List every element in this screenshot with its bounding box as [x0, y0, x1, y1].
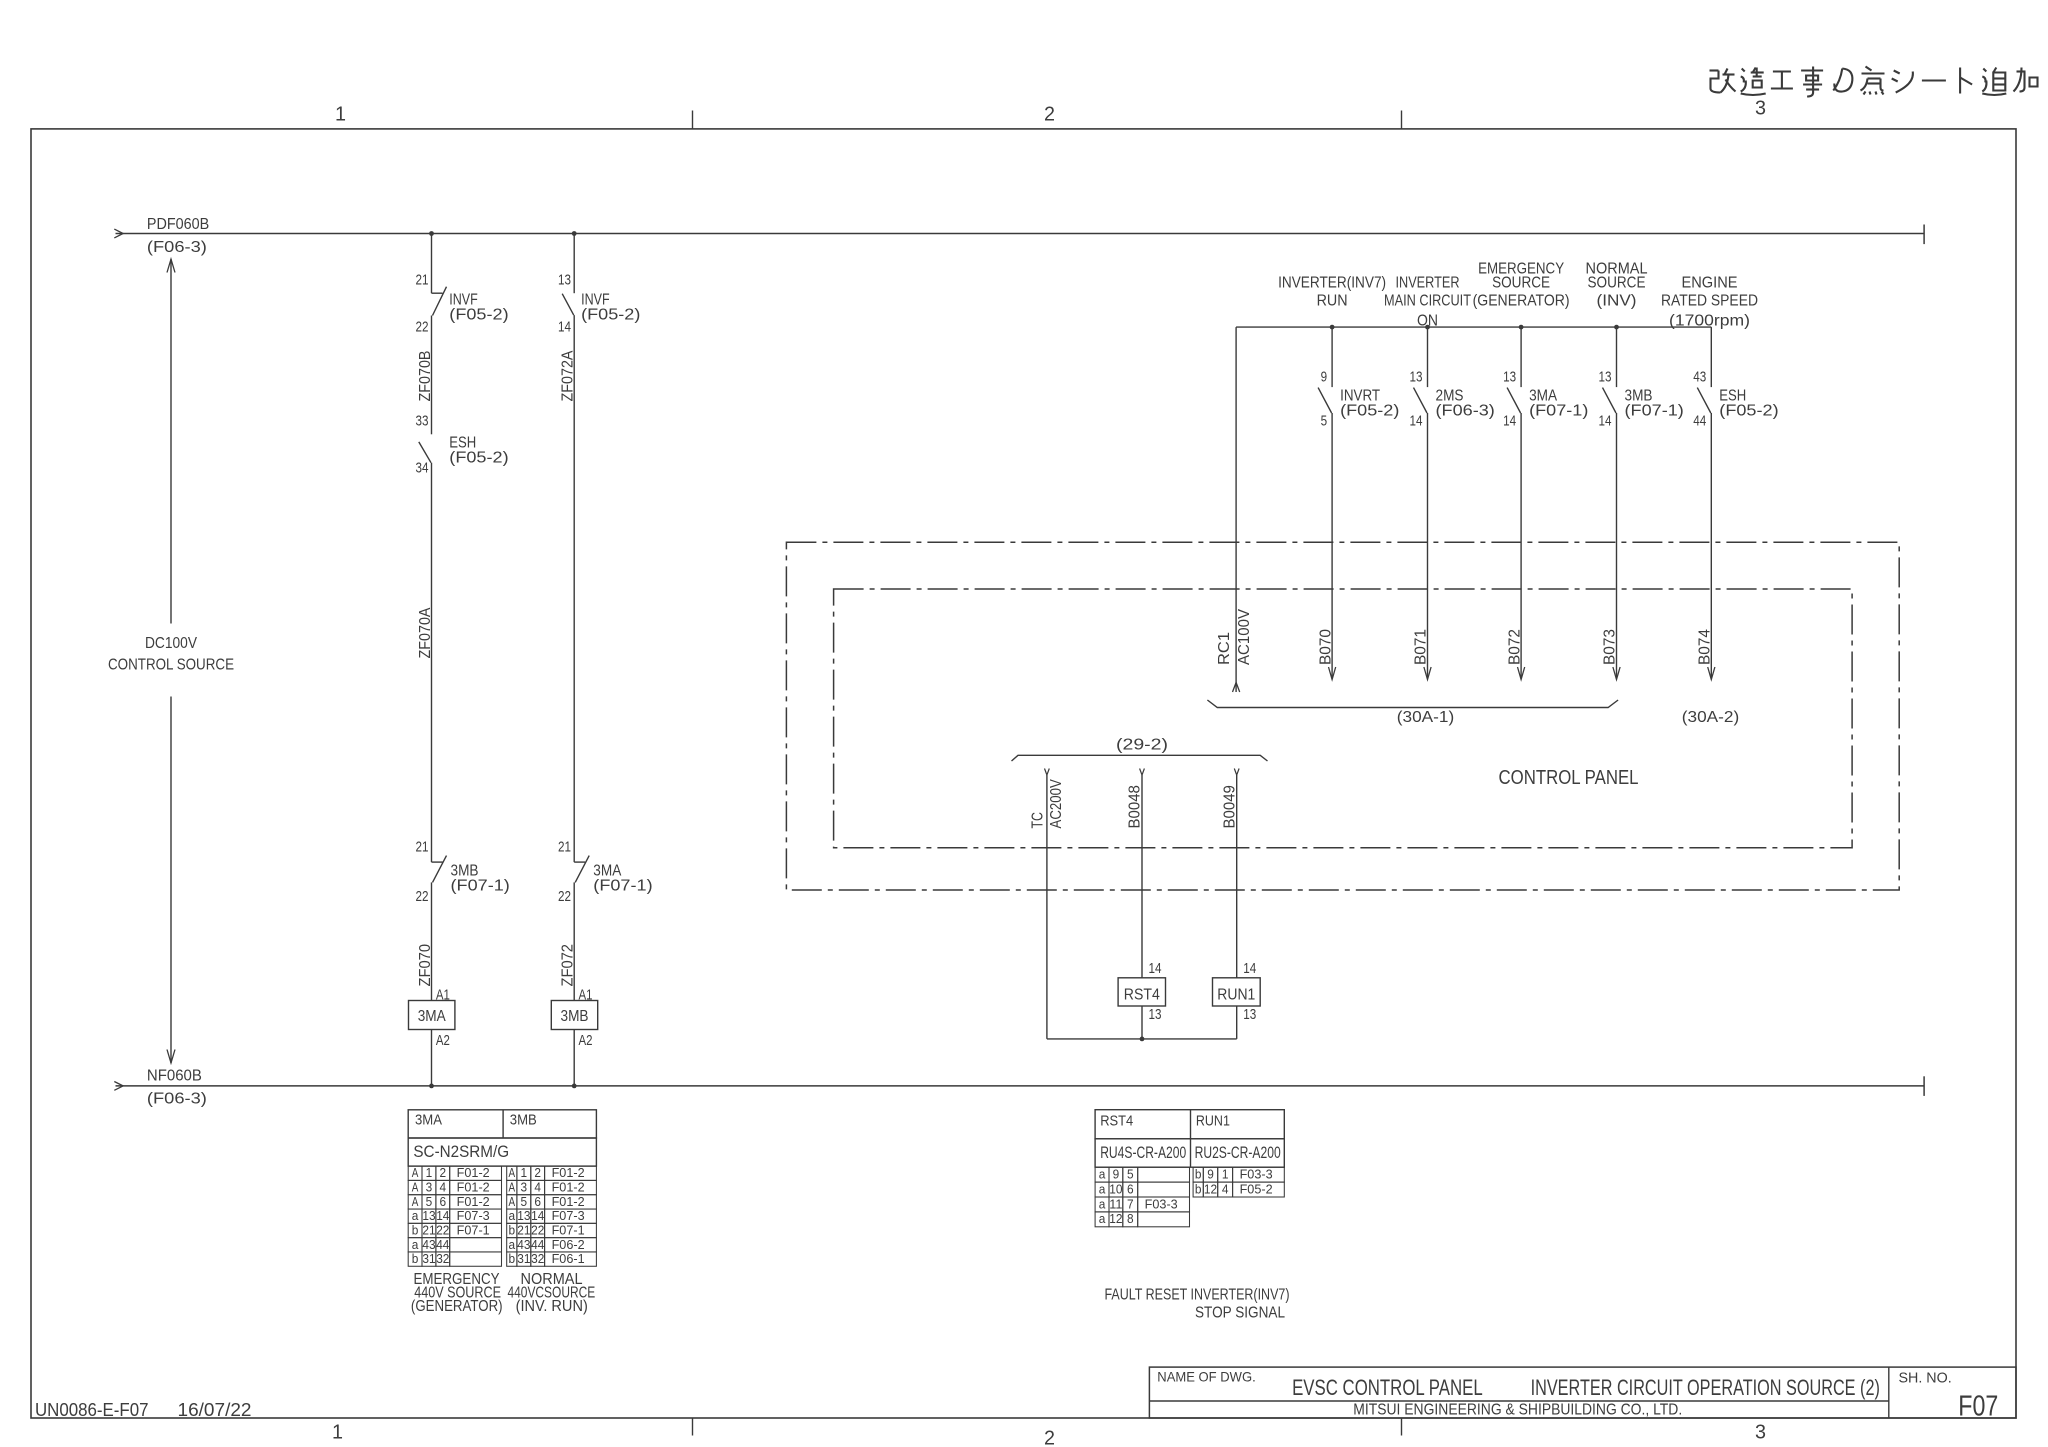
- svg-text:13: 13: [1410, 369, 1423, 386]
- svg-text:14: 14: [1599, 413, 1612, 430]
- svg-text:(F07-1): (F07-1): [451, 877, 510, 894]
- coil 3MB: [551, 1001, 597, 1030]
- svg-text:NF060B: NF060B: [147, 1068, 202, 1085]
- contact 3MB 21-22 (NC): [432, 861, 443, 863]
- wire B072 upper: [1520, 327, 1522, 387]
- wire: [573, 234, 575, 294]
- bus end tick: [1923, 1076, 1925, 1096]
- svg-text:UN0086-E-F07: UN0086-E-F07: [35, 1400, 149, 1420]
- svg-text:F07-3: F07-3: [552, 1209, 585, 1223]
- svg-text:(30A-1): (30A-1): [1397, 709, 1454, 726]
- svg-text:(F06-3): (F06-3): [147, 1091, 207, 1108]
- svg-text:RU2S-CR-A200: RU2S-CR-A200: [1195, 1143, 1281, 1162]
- svg-text:43: 43: [1693, 369, 1706, 386]
- wire B0048: [1141, 775, 1143, 978]
- svg-text:43: 43: [517, 1238, 530, 1252]
- svg-text:AC200V: AC200V: [1048, 779, 1065, 829]
- wire B070 upper: [1331, 327, 1333, 387]
- svg-text:3: 3: [521, 1181, 528, 1195]
- svg-text:14: 14: [1410, 413, 1423, 430]
- svg-text:(F05-2): (F05-2): [449, 449, 508, 466]
- svg-text:SC-N2SRM/G: SC-N2SRM/G: [413, 1142, 509, 1161]
- contact INVRT 9-5 (NO): [1318, 388, 1332, 413]
- svg-text:13: 13: [1243, 1006, 1256, 1023]
- svg-text:1: 1: [521, 1166, 528, 1180]
- junction branch2 top: [572, 231, 577, 236]
- note: kaizou kouji no tame sheet tsuika: [1710, 67, 2038, 97]
- contact INVF 13-14 (NO): [562, 294, 574, 315]
- svg-text:a: a: [1099, 1212, 1106, 1226]
- wire B073 upper: [1616, 327, 1618, 387]
- wire bottom connector: [1047, 1038, 1237, 1040]
- junction branch1 bottom: [429, 1084, 434, 1089]
- svg-text:CONTROL PANEL: CONTROL PANEL: [1499, 767, 1639, 789]
- svg-text:5: 5: [1321, 413, 1328, 430]
- junction branch2 bottom: [572, 1084, 577, 1089]
- svg-text:13: 13: [1503, 369, 1516, 386]
- node NF060B bus: [116, 1085, 1925, 1087]
- svg-text:ZF072: ZF072: [560, 944, 577, 987]
- svg-text:3MA: 3MA: [415, 1112, 442, 1129]
- svg-text:44: 44: [531, 1238, 544, 1252]
- svg-text:b: b: [509, 1252, 516, 1266]
- svg-text:F07-1: F07-1: [457, 1223, 490, 1237]
- svg-text:14: 14: [436, 1209, 449, 1223]
- svg-text:b: b: [509, 1223, 516, 1237]
- junction: [1330, 325, 1335, 330]
- arrow down: [1708, 667, 1715, 680]
- svg-text:a: a: [1099, 1197, 1106, 1211]
- wire TC: [1046, 775, 1048, 1039]
- svg-text:1: 1: [426, 1166, 433, 1180]
- svg-text:(INV): (INV): [1597, 293, 1637, 310]
- svg-text:A2: A2: [436, 1032, 450, 1049]
- contact ESH 33-34 (NO): [419, 442, 431, 463]
- svg-text:21: 21: [416, 839, 429, 856]
- svg-text:STOP SIGNAL: STOP SIGNAL: [1195, 1305, 1285, 1322]
- arrow up at bottom of RC1: [1233, 683, 1240, 693]
- svg-text:2: 2: [440, 1166, 447, 1180]
- svg-text:b: b: [412, 1252, 419, 1266]
- junction: [1614, 325, 1619, 330]
- svg-text:33: 33: [416, 413, 429, 430]
- node PDF060B bus: [116, 233, 1925, 235]
- svg-text:b: b: [1195, 1168, 1202, 1182]
- svg-text:F01-2: F01-2: [552, 1181, 585, 1195]
- svg-text:44: 44: [436, 1238, 449, 1252]
- svg-text:F06-2: F06-2: [552, 1238, 585, 1252]
- svg-text:MAIN CIRCUIT: MAIN CIRCUIT: [1384, 293, 1471, 310]
- wire right sub-bus: [1236, 326, 1711, 328]
- bus arrow left: [114, 1082, 123, 1091]
- wire B071 lower: [1427, 413, 1429, 679]
- svg-text:SOURCE: SOURCE: [1588, 275, 1646, 292]
- svg-text:13: 13: [558, 272, 571, 289]
- svg-text:13: 13: [1599, 369, 1612, 386]
- svg-text:F07-3: F07-3: [457, 1209, 490, 1223]
- svg-text:a: a: [1099, 1168, 1106, 1182]
- control panel outer boundary: [786, 542, 1899, 890]
- svg-text:F01-2: F01-2: [457, 1166, 490, 1180]
- arrow down: [1518, 667, 1525, 680]
- svg-text:a: a: [412, 1238, 419, 1252]
- wire ZF072A: [573, 315, 575, 862]
- svg-text:ZF072A: ZF072A: [560, 350, 577, 401]
- wire ZF070: [431, 882, 433, 1000]
- arrow down TC: [1045, 769, 1050, 776]
- arrow down B0048: [1140, 769, 1145, 776]
- contact 2MS 13-14 (NO): [1414, 388, 1428, 413]
- svg-text:32: 32: [531, 1252, 544, 1266]
- svg-text:22: 22: [436, 1223, 449, 1237]
- table 3MA/3MB: [408, 1110, 596, 1266]
- wire ZF072: [573, 882, 575, 1000]
- svg-text:21: 21: [416, 272, 429, 289]
- svg-text:B074: B074: [1697, 629, 1714, 665]
- svg-text:B072: B072: [1506, 629, 1523, 665]
- coil 3MA: [409, 1001, 455, 1030]
- svg-text:44: 44: [1693, 413, 1706, 430]
- svg-text:CONTROL SOURCE: CONTROL SOURCE: [108, 657, 234, 674]
- bus arrow left: [114, 229, 123, 238]
- svg-text:ZF070A: ZF070A: [417, 607, 434, 658]
- wire RC1: [1235, 327, 1237, 692]
- svg-text:RUN1: RUN1: [1217, 987, 1255, 1004]
- arrow down: [1424, 667, 1431, 680]
- svg-text:14: 14: [531, 1209, 544, 1223]
- junction: [1519, 325, 1524, 330]
- contact ESH 43-44 (NO): [1697, 388, 1711, 413]
- svg-text:3: 3: [426, 1181, 433, 1195]
- svg-text:ENGINE: ENGINE: [1682, 275, 1738, 292]
- svg-text:31: 31: [422, 1252, 435, 1266]
- wire B071 upper: [1427, 327, 1429, 387]
- svg-text:1: 1: [332, 1422, 343, 1444]
- svg-text:2: 2: [1044, 1428, 1055, 1447]
- arrow down B0049: [1234, 769, 1239, 776]
- wire B072 lower: [1520, 413, 1522, 679]
- wire: [1141, 1006, 1143, 1039]
- svg-text:1: 1: [1222, 1168, 1229, 1182]
- svg-text:5: 5: [1127, 1168, 1134, 1182]
- svg-text:TC: TC: [1030, 812, 1047, 829]
- svg-text:22: 22: [531, 1223, 544, 1237]
- svg-text:14: 14: [1149, 960, 1162, 977]
- svg-text:3MA: 3MA: [418, 1008, 446, 1025]
- svg-text:9: 9: [1207, 1168, 1214, 1182]
- svg-text:43: 43: [422, 1238, 435, 1252]
- svg-text:(F06-3): (F06-3): [1436, 402, 1495, 419]
- svg-text:14: 14: [1243, 960, 1256, 977]
- svg-text:13: 13: [422, 1209, 435, 1223]
- wire B074 upper: [1710, 327, 1712, 387]
- svg-text:EVSC CONTROL PANEL: EVSC CONTROL PANEL: [1292, 1375, 1483, 1400]
- svg-text:(INV. RUN): (INV. RUN): [516, 1298, 588, 1315]
- svg-text:12: 12: [1204, 1182, 1217, 1196]
- svg-text:F07: F07: [1958, 1391, 1998, 1423]
- svg-text:16/07/22: 16/07/22: [178, 1400, 252, 1420]
- svg-text:B070: B070: [1317, 629, 1334, 665]
- svg-text:RATED SPEED: RATED SPEED: [1661, 293, 1758, 310]
- relay RUN1: [1213, 978, 1261, 1006]
- svg-text:9: 9: [1321, 369, 1328, 386]
- svg-text:8: 8: [1127, 1212, 1134, 1226]
- svg-text:F01-2: F01-2: [552, 1195, 585, 1209]
- svg-text:14: 14: [1503, 413, 1516, 430]
- contact INVF 21-22 (NC): [432, 292, 443, 294]
- svg-text:22: 22: [416, 319, 429, 336]
- wire DC100V source span: [170, 259, 172, 623]
- svg-text:13: 13: [517, 1209, 530, 1223]
- junction: [1140, 1037, 1145, 1042]
- wire B070 lower: [1331, 413, 1333, 679]
- svg-text:b: b: [1195, 1182, 1202, 1196]
- svg-text:(F05-2): (F05-2): [449, 306, 508, 323]
- brace (29-2): [1012, 755, 1268, 761]
- svg-text:(30A-2): (30A-2): [1682, 709, 1739, 726]
- svg-text:A: A: [509, 1166, 516, 1180]
- svg-text:(F05-2): (F05-2): [1719, 402, 1778, 419]
- junction: [1425, 325, 1430, 330]
- svg-text:SH. NO.: SH. NO.: [1899, 1370, 1952, 1387]
- svg-text:F05-2: F05-2: [1240, 1182, 1273, 1196]
- svg-text:B0048: B0048: [1127, 785, 1144, 828]
- svg-text:F01-2: F01-2: [457, 1195, 490, 1209]
- svg-text:F01-2: F01-2: [457, 1181, 490, 1195]
- svg-text:A: A: [412, 1166, 419, 1180]
- svg-text:7: 7: [1127, 1197, 1134, 1211]
- svg-text:b: b: [412, 1223, 419, 1237]
- wire: [573, 1030, 575, 1086]
- svg-text:6: 6: [440, 1195, 447, 1209]
- svg-text:F01-2: F01-2: [552, 1166, 585, 1180]
- wire: [170, 697, 172, 1064]
- svg-text:PDF060B: PDF060B: [147, 216, 209, 233]
- contact 3MB 13-14 (NO): [1603, 388, 1617, 413]
- svg-text:(F07-1): (F07-1): [593, 877, 652, 894]
- svg-text:(F05-2): (F05-2): [581, 306, 640, 323]
- svg-text:B073: B073: [1602, 629, 1619, 665]
- wire: [1236, 1006, 1238, 1039]
- svg-text:2: 2: [534, 1166, 541, 1180]
- svg-text:22: 22: [416, 888, 429, 905]
- svg-text:3: 3: [1755, 1422, 1766, 1444]
- svg-text:3MB: 3MB: [561, 1008, 589, 1025]
- svg-text:10: 10: [1109, 1182, 1122, 1196]
- svg-text:RST4: RST4: [1100, 1113, 1133, 1130]
- wire B0049: [1236, 775, 1238, 978]
- svg-text:RUN: RUN: [1317, 293, 1348, 310]
- svg-text:(F05-2): (F05-2): [1340, 402, 1399, 419]
- wire: [431, 1030, 433, 1086]
- svg-text:5: 5: [521, 1195, 528, 1209]
- svg-text:A: A: [412, 1181, 419, 1195]
- contact 3MA 13-14 (NO): [1507, 388, 1521, 413]
- table RST4/RUN1: [1095, 1110, 1284, 1227]
- svg-text:INVERTER(INV7): INVERTER(INV7): [1278, 275, 1386, 292]
- svg-text:4: 4: [1222, 1182, 1229, 1196]
- svg-text:(GENERATOR): (GENERATOR): [1473, 293, 1570, 310]
- svg-text:(F06-3): (F06-3): [147, 239, 207, 256]
- bus end tick: [1923, 225, 1925, 245]
- svg-text:(F07-1): (F07-1): [1625, 402, 1684, 419]
- svg-text:12: 12: [1109, 1212, 1122, 1226]
- svg-text:6: 6: [534, 1195, 541, 1209]
- svg-text:NAME OF DWG.: NAME OF DWG.: [1157, 1369, 1255, 1385]
- svg-text:22: 22: [558, 888, 571, 905]
- arrow up: [167, 259, 175, 272]
- svg-text:RUN1: RUN1: [1196, 1113, 1230, 1130]
- svg-text:F03-3: F03-3: [1240, 1168, 1273, 1182]
- wire B073 lower: [1616, 413, 1618, 679]
- svg-text:32: 32: [436, 1252, 449, 1266]
- svg-text:3MB: 3MB: [510, 1112, 537, 1129]
- svg-text:A: A: [412, 1195, 419, 1209]
- svg-text:34: 34: [416, 460, 429, 477]
- svg-text:21: 21: [422, 1223, 435, 1237]
- svg-text:DC100V: DC100V: [145, 635, 197, 652]
- zone tick top 2|3: [1401, 111, 1403, 129]
- svg-text:(GENERATOR): (GENERATOR): [411, 1298, 503, 1315]
- svg-text:a: a: [509, 1238, 516, 1252]
- svg-text:11: 11: [1109, 1197, 1122, 1211]
- svg-text:13: 13: [1149, 1006, 1162, 1023]
- svg-text:F06-1: F06-1: [552, 1252, 585, 1266]
- brace (30A-1): [1207, 700, 1618, 708]
- svg-text:INVERTER: INVERTER: [1396, 275, 1460, 292]
- zone tick top 1|2: [692, 111, 694, 129]
- svg-text:FAULT RESET INVERTER(INV7): FAULT RESET INVERTER(INV7): [1105, 1287, 1290, 1304]
- control panel inner boundary: [834, 589, 1853, 848]
- svg-text:9: 9: [1113, 1168, 1120, 1182]
- svg-text:(F07-1): (F07-1): [1529, 402, 1588, 419]
- svg-text:MITSUI ENGINEERING & SHIPBUILD: MITSUI ENGINEERING & SHIPBUILDING CO., L…: [1353, 1402, 1682, 1419]
- wire ZF070A: [431, 463, 433, 862]
- svg-text:AC100V: AC100V: [1236, 609, 1253, 665]
- junction branch1 top: [429, 231, 434, 236]
- wire ZF070B: [431, 316, 433, 435]
- svg-text:B071: B071: [1413, 629, 1430, 665]
- svg-text:RC1: RC1: [1216, 632, 1233, 665]
- svg-text:B0049: B0049: [1221, 785, 1238, 828]
- svg-text:3: 3: [1755, 98, 1766, 120]
- svg-text:ZF070: ZF070: [417, 944, 434, 987]
- relay RST4: [1118, 978, 1165, 1006]
- zone tick bottom 2|3: [1401, 1418, 1403, 1436]
- svg-text:F03-3: F03-3: [1145, 1197, 1178, 1211]
- svg-text:SOURCE: SOURCE: [1492, 275, 1550, 292]
- svg-text:A: A: [509, 1181, 516, 1195]
- svg-text:21: 21: [558, 839, 571, 856]
- svg-text:ZF070B: ZF070B: [417, 351, 434, 402]
- svg-text:31: 31: [517, 1252, 530, 1266]
- svg-text:21: 21: [517, 1223, 530, 1237]
- svg-text:a: a: [509, 1209, 516, 1223]
- svg-text:a: a: [1099, 1182, 1106, 1196]
- wire B074 lower: [1710, 413, 1712, 679]
- arrow down: [167, 1050, 175, 1064]
- svg-text:RU4S-CR-A200: RU4S-CR-A200: [1100, 1143, 1186, 1162]
- svg-text:INVERTER CIRCUIT OPERATION SOU: INVERTER CIRCUIT OPERATION SOURCE (2): [1531, 1375, 1880, 1400]
- arrow down: [1613, 667, 1620, 680]
- svg-text:(29-2): (29-2): [1116, 737, 1168, 754]
- zone tick bottom 1|2: [692, 1418, 694, 1436]
- arrow down: [1329, 667, 1336, 680]
- svg-text:a: a: [412, 1209, 419, 1223]
- svg-text:4: 4: [534, 1181, 541, 1195]
- svg-text:F07-1: F07-1: [552, 1223, 585, 1237]
- wire: [431, 234, 433, 294]
- svg-text:RST4: RST4: [1124, 987, 1160, 1004]
- svg-text:1: 1: [335, 104, 346, 126]
- svg-text:A2: A2: [579, 1032, 593, 1049]
- svg-text:6: 6: [1127, 1182, 1134, 1196]
- svg-text:5: 5: [426, 1195, 433, 1209]
- title block: [1149, 1367, 2016, 1422]
- contact 3MA 21-22 (NC): [574, 861, 585, 863]
- svg-text:14: 14: [558, 319, 571, 336]
- svg-text:2: 2: [1044, 104, 1055, 126]
- svg-text:4: 4: [440, 1181, 447, 1195]
- svg-text:A: A: [509, 1195, 516, 1209]
